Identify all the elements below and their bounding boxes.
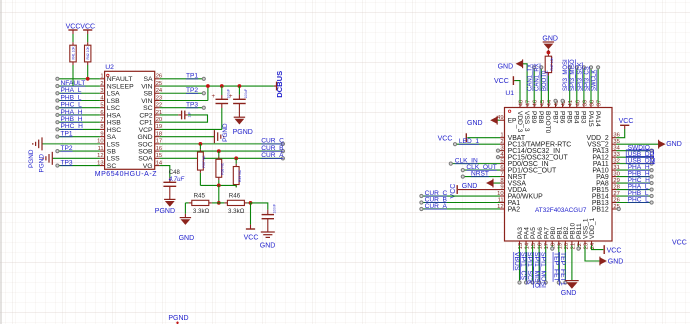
open end TP2 [202,92,205,95]
VCC VDD_2 stem [624,125,626,129]
svg-text:SC: SC [107,163,117,170]
svg-text:PGND: PGND [233,129,253,136]
svg-text:GND: GND [137,134,152,141]
ground GND VSS_2 [659,141,666,148]
wire PHA_H right U1 [617,169,651,171]
ic U1 AT32F403A body [505,108,613,242]
U1 pin 8 stub [500,182,505,184]
open end CUR_B U1 [420,201,423,204]
svg-text:BOOT0: BOOT0 [544,111,551,134]
svg-text:NFAULT: NFAULT [107,76,133,83]
wire SPI1_MOSI [545,245,547,281]
wire VIN rail [160,85,274,87]
svg-text:CUR_B: CUR_B [261,145,284,152]
U1 pin 42 stub [562,103,564,107]
svg-text:9: 9 [100,131,103,137]
sense R2 top lead [218,157,220,160]
junction CUR_C [199,142,203,146]
ground GND PB10 [565,280,579,282]
svg-text:4.7uF: 4.7uF [169,177,185,183]
R41 bottom lead [72,62,74,65]
capacitor C48 lead bottom [169,186,171,199]
svg-text:TEP_FET1: TEP_FET1 [559,252,566,286]
wire TP3 right [160,107,203,109]
wire SWDIO right U1 [617,150,651,152]
svg-text:LSB: LSB [107,98,120,105]
svg-text:1: 1 [500,133,503,139]
svg-text:U1: U1 [505,90,514,97]
open end pin 4 [56,99,59,102]
wire PHC_H right U1 [617,182,651,184]
svg-text:SC: SC [143,105,153,112]
U2 pin 8 stub [100,128,105,130]
wire VDD_3 to VCC [515,81,520,104]
junction VIN riser [206,84,210,88]
U1 pin 23 stub [584,241,586,245]
U1 pin 5 stub [500,163,505,165]
U1 pin 30 stub [612,176,617,178]
open end SPI1_MISO [538,281,541,284]
U1 pin 35 stub [612,143,617,145]
svg-text:44: 44 [547,99,553,106]
svg-text:GND: GND [467,120,483,127]
svg-text:PHB_H: PHB_H [61,116,83,123]
svg-text:MP6540HGU-A-Z: MP6540HGU-A-Z [95,171,158,178]
wire TP1 right [160,78,203,80]
DCBUS port stub [274,85,277,87]
open end SPI3_CS [589,66,592,69]
svg-text:SOC: SOC [138,141,153,148]
open end TP1 [202,77,205,80]
svg-text:39: 39 [582,100,588,106]
open end pin 6 [56,113,59,116]
ic U2 pin1 marker [107,74,109,76]
svg-text:46: 46 [533,100,539,106]
sense R2 top wire [218,151,220,156]
open end pin 5 [56,106,59,109]
capacitor C3 plates [262,214,274,216]
svg-text:TEP_FET: TEP_FET [552,252,559,282]
R46 right wire [247,202,250,204]
svg-text:R42 10K: R42 10K [86,46,90,60]
svg-text:PHC_L: PHC_L [628,196,650,203]
svg-text:SPI3_MOSI: SPI3_MOSI [563,59,569,91]
U1 pin 33 stub [612,156,617,158]
svg-text:2: 2 [500,139,503,145]
svg-text:BOOT0: BOOT0 [542,70,548,91]
open end SPI1_CS [524,281,527,284]
svg-text:PB6: PB6 [558,111,565,124]
U1 pin 29 stub [612,182,617,184]
svg-text:VG: VG [143,163,153,170]
open end PHC_H right U1 [650,181,653,184]
U1 pin 36 stub [612,137,617,139]
svg-text:GND: GND [542,35,558,42]
sense R3 top wire [235,158,237,163]
resistor R47 body [545,56,551,72]
svg-text:48: 48 [519,100,525,106]
svg-text:2: 2 [100,81,103,87]
open end pin 4 [496,156,499,159]
svg-text:LSS: LSS [107,141,120,148]
svg-text:SA: SA [144,76,154,83]
open end SPI3_MISO [575,66,578,69]
svg-text:GND: GND [666,141,682,148]
svg-text:SPI1_MOSI: SPI1_MOSI [539,252,546,288]
svg-text:GND: GND [608,258,624,265]
wire USB_DM right U1 [617,163,651,165]
R46 left lead [224,202,227,204]
svg-text:PB12: PB12 [592,206,609,213]
U1 pin 3 stub [500,150,505,152]
svg-text:HSA: HSA [107,112,121,119]
svg-text:SPI3_SCK: SPI3_SCK [577,62,583,91]
U1 pin 25 nc stub [617,208,618,210]
svg-text:PA14: PA14 [594,111,601,127]
wire NRST [464,176,500,178]
U1 pin 1 stub [500,137,505,139]
power flag VCC VDD_1 bar [603,245,605,254]
svg-text:CUR_A: CUR_A [261,152,284,159]
wire VIN pin23 [160,99,208,101]
svg-text:R37 NC: R37 NC [202,155,206,168]
wire TEP_FET [558,245,560,281]
sense R2 bottom lead [218,177,220,180]
svg-text:CAN1_TX: CAN1_TX [528,64,534,91]
svg-text:EP: EP [508,118,517,125]
R45 left lead [189,202,192,204]
U1 pin 41 stub [569,103,571,107]
R46 left wire [219,202,225,204]
svg-text:41: 41 [568,100,574,106]
U1 pin 20 stub [564,241,566,245]
svg-text:SPI3_CS: SPI3_CS [584,66,590,91]
svg-text:8: 8 [500,178,503,184]
svg-text:PB4: PB4 [573,111,580,124]
R45 right wire [212,202,219,204]
U1 pin 6 stub [500,169,505,171]
ic U1 pin1 marker [508,110,510,112]
wire GND pin18 [160,136,214,138]
wire USB_DP right U1 [617,156,651,158]
U2 pin 13 stub [100,165,105,167]
svg-text:100uF: 100uF [244,89,248,99]
svg-text:PB5: PB5 [566,111,573,124]
VCC VDD_3 stem [513,80,514,82]
R42 bottom lead [87,62,89,65]
open end CAN1_RX [540,66,543,69]
wire VDD_2 to VCC [617,129,625,138]
U2 pin 1 stub [100,78,105,80]
svg-text:VCC: VCC [438,135,453,142]
svg-text:TP3: TP3 [186,102,198,109]
U2 pin 18 stub [155,136,160,138]
svg-text:3: 3 [100,88,103,94]
U1 pin 19 stub [558,241,560,245]
wire VSS_1 to GND [585,245,600,261]
svg-text:R47 10K: R47 10K [550,57,554,71]
wire U2 pin 2 net [59,85,100,87]
capacitor C1 lead top [221,95,223,99]
ground PGND sideways 2 [51,152,53,165]
ground GND EP [490,117,497,124]
svg-text:LSS: LSS [107,156,120,163]
svg-text:GND: GND [561,290,577,297]
svg-text:LSC: LSC [107,105,120,112]
power flag VCC VBAT bar [465,133,467,142]
U1 pin 4 stub [500,156,505,158]
svg-text:PGND: PGND [28,149,35,168]
svg-text:CAN1_RX: CAN1_RX [535,63,541,91]
junction sense rail [217,184,221,188]
open end CAN1_TX [533,66,536,69]
U2 pin 3 stub [100,92,105,94]
U1 pin 22 stub [577,241,579,245]
svg-text:NSLEEP: NSLEEP [107,83,134,90]
svg-text:100nF: 100nF [272,204,276,214]
sense R1 top lead [199,149,201,152]
U2 pin 21 stub [155,114,160,116]
capacitor C3 lead top [267,210,269,215]
wire SWCLK [597,69,599,104]
svg-text:U2: U2 [105,64,114,71]
ground GND VSS_3 [516,60,523,67]
U1 pin 24 stub [591,241,593,245]
resistor R46 body [227,200,244,205]
open end pin 1 [56,77,59,80]
svg-text:TP1: TP1 [186,73,198,80]
open end NRST [461,175,464,178]
wire CAN1_TX [533,69,535,104]
ground PGND C48 [164,198,175,200]
svg-text:PHA_H: PHA_H [61,109,83,116]
svg-text:CP2: CP2 [139,112,152,119]
svg-text:+: + [229,94,233,100]
open end pin 22 [577,247,580,250]
U1 pin 49 stub [500,119,505,121]
svg-text:19: 19 [557,243,563,249]
wire U2 pin 4 net [59,99,100,101]
junction R46 VCC [249,201,253,205]
svg-text:VSS_3: VSS_3 [523,111,530,132]
svg-text:6: 6 [500,165,503,171]
open end PHB_H right U1 [650,175,653,178]
sense R2 bottom wire [218,180,220,185]
open end CLK_IN [449,162,452,165]
wire PB10 to GND [571,245,573,280]
wire R41 to NSLEEP [72,65,74,86]
wire U2 pin 13 net [59,165,100,167]
svg-text:SPI1_CS: SPI1_CS [520,252,527,280]
sense R1 bottom wire [199,173,201,186]
wire R45 to GND [184,203,186,214]
svg-text:9: 9 [500,184,503,190]
svg-text:23: 23 [584,243,590,249]
open end pin 42 [561,99,564,102]
svg-text:20: 20 [564,243,570,249]
U1 pin 15 stub [532,241,534,245]
wire TEP_FET1 [564,245,566,281]
open end CUR_C U1 [420,194,423,197]
wire CP2 to cap [160,114,179,116]
wire SPI3_MOSI [569,69,571,104]
svg-text:15: 15 [531,243,537,249]
svg-text:R45: R45 [194,193,206,200]
sense R1 top wire [199,144,201,149]
svg-text:PGND: PGND [155,208,175,215]
svg-text:R39 NC: R39 NC [238,169,242,182]
svg-text:SB: SB [144,91,154,98]
U2 pin 17 stub [155,143,160,145]
capacitor C48 plates [163,181,176,183]
capacitor C2 lead top2 [238,95,240,100]
wire CAN1_RX [540,69,542,104]
capacitor C2 lead top [238,86,240,95]
svg-text:PHB_L: PHB_L [61,94,82,101]
svg-text:PB9: PB9 [530,111,537,124]
wire SPI1_CS [525,245,527,281]
U1 pin 34 stub [612,150,617,152]
svg-text:R41 10K: R41 10K [72,46,76,60]
U1 pin 42 nc stub [562,102,564,103]
svg-text:16: 16 [538,243,544,249]
wire VCP [160,128,222,130]
U2 pin 15 stub [155,157,160,159]
open end SPI3_SCK [582,66,585,69]
capacitor C1 lead bottom [221,104,223,108]
wire CUR_C U1 [423,195,500,197]
svg-text:SA: SA [107,134,117,141]
open end USB_DM right U1 [650,162,653,165]
open end SWDIO right U1 [650,149,653,152]
U2 pin 6 stub [100,114,105,116]
wire LED_1 [456,143,500,145]
R46 right lead [244,202,247,204]
open end pin 3 [56,92,59,95]
U2 pin 20 stub [155,121,160,123]
open end SPI3_MOSI [568,66,571,69]
cap CP lead left [178,114,181,116]
R2 top lead [87,42,89,45]
svg-text:VDD_3: VDD_3 [516,111,523,133]
svg-text:NRST: NRST [471,170,489,177]
U2 pin 16 stub [155,150,160,152]
U1 pin 22 nc wire [577,245,579,247]
wire VBAT to VCC [467,137,500,139]
svg-text:CUR_C: CUR_C [261,138,284,145]
U1 pin 48 stub [519,103,521,107]
junction VIN cap2 [238,84,242,88]
open end PHA_H right U1 [650,169,653,172]
wire U2 pin 8 net [59,128,100,130]
wire cap to CP1 [160,115,208,122]
svg-text:VIN: VIN [141,98,152,105]
open end CUR_C [281,142,284,145]
svg-text:SB: SB [107,149,117,156]
U1 pin 14 stub [525,241,527,245]
U2 pin 26 stub [155,78,160,80]
wire PHB_H right U1 [617,176,651,178]
open end CUR_A [281,157,284,160]
svg-text:PHA_L: PHA_L [61,87,82,94]
svg-text:PGND: PGND [168,315,188,322]
svg-text:PB7: PB7 [551,111,558,124]
open end pin 9 [56,135,59,138]
U1 pin 38 stub [590,103,592,107]
U1 pin 27 stub [612,195,617,197]
capacitor C2 plates [233,98,246,100]
ground GND R45 [180,217,191,219]
U1 pin 39 stub [583,103,585,107]
U1 pin 11 stub [500,202,505,204]
svg-text:VCC: VCC [619,118,634,125]
U2 pin 9 stub [100,136,105,138]
svg-text:SWCLK: SWCLK [592,70,598,91]
svg-text:3.3kΩ: 3.3kΩ [193,208,210,215]
junction CUR_A [234,156,238,160]
wire pin10 to PGND [42,143,100,145]
svg-text:R46: R46 [229,193,241,200]
wire BOOT0 [547,76,549,104]
svg-text:R38 NC: R38 NC [220,162,224,175]
junction NFAULT pullup [86,77,90,81]
sense R3 top lead [235,164,237,167]
wire VDD_1 to VCC [592,245,604,249]
U2 pin 23 stub [155,99,160,101]
open end pin 3 [496,149,499,152]
wire SPI1_SCK [532,245,534,281]
wire VIN riser pin23 [207,86,209,100]
U1 pin 17 stub [545,241,547,245]
open end VBUS [518,281,521,284]
U1 pin 32 stub [612,163,617,165]
svg-text:TP1: TP1 [61,130,73,137]
junction VIN cap1 [220,84,224,88]
wire VCC to R1 [72,34,74,42]
wire VDDA to VCC [458,189,500,191]
wire SPI3_SCK [583,69,585,104]
junction BOOT0 gnd [547,51,551,55]
wire rail to divider [218,185,220,203]
ic U2 MP6540 body [105,71,155,169]
U1 pin 44 stub [547,103,549,107]
wire sense rail [200,184,236,186]
power flag VCC VDD_2 bar [620,124,629,126]
wire R42 to NFAULT [87,65,89,79]
wire U2 pin 7 net [59,121,100,123]
wire VSS_3 to GND [523,64,528,103]
svg-text:SPI3_MISO: SPI3_MISO [570,59,576,91]
wire U2 pin 9 net [59,136,100,138]
ground GND BOOT0 [543,41,554,43]
svg-text:VIN: VIN [141,83,152,90]
open end pin 8 [56,128,59,131]
U1 pin 31 stub [612,169,617,171]
wire CUR_C [160,143,282,145]
svg-text:LED_1: LED_1 [459,138,479,145]
svg-text:TP2: TP2 [186,87,198,94]
svg-text:PHC_H: PHC_H [61,123,84,130]
wire PHC_L right U1 [617,202,651,204]
U1 pin 9 stub [500,189,505,191]
wire SPI3_CS [590,69,592,104]
svg-text:VCP: VCP [139,127,153,134]
U1 pin 26 stub [612,202,617,204]
open end CUR_B [281,150,284,153]
open end PHB_L right U1 [650,194,653,197]
U2 pin 2 stub [100,85,105,87]
svg-text:VDD_1: VDD_1 [589,217,596,239]
